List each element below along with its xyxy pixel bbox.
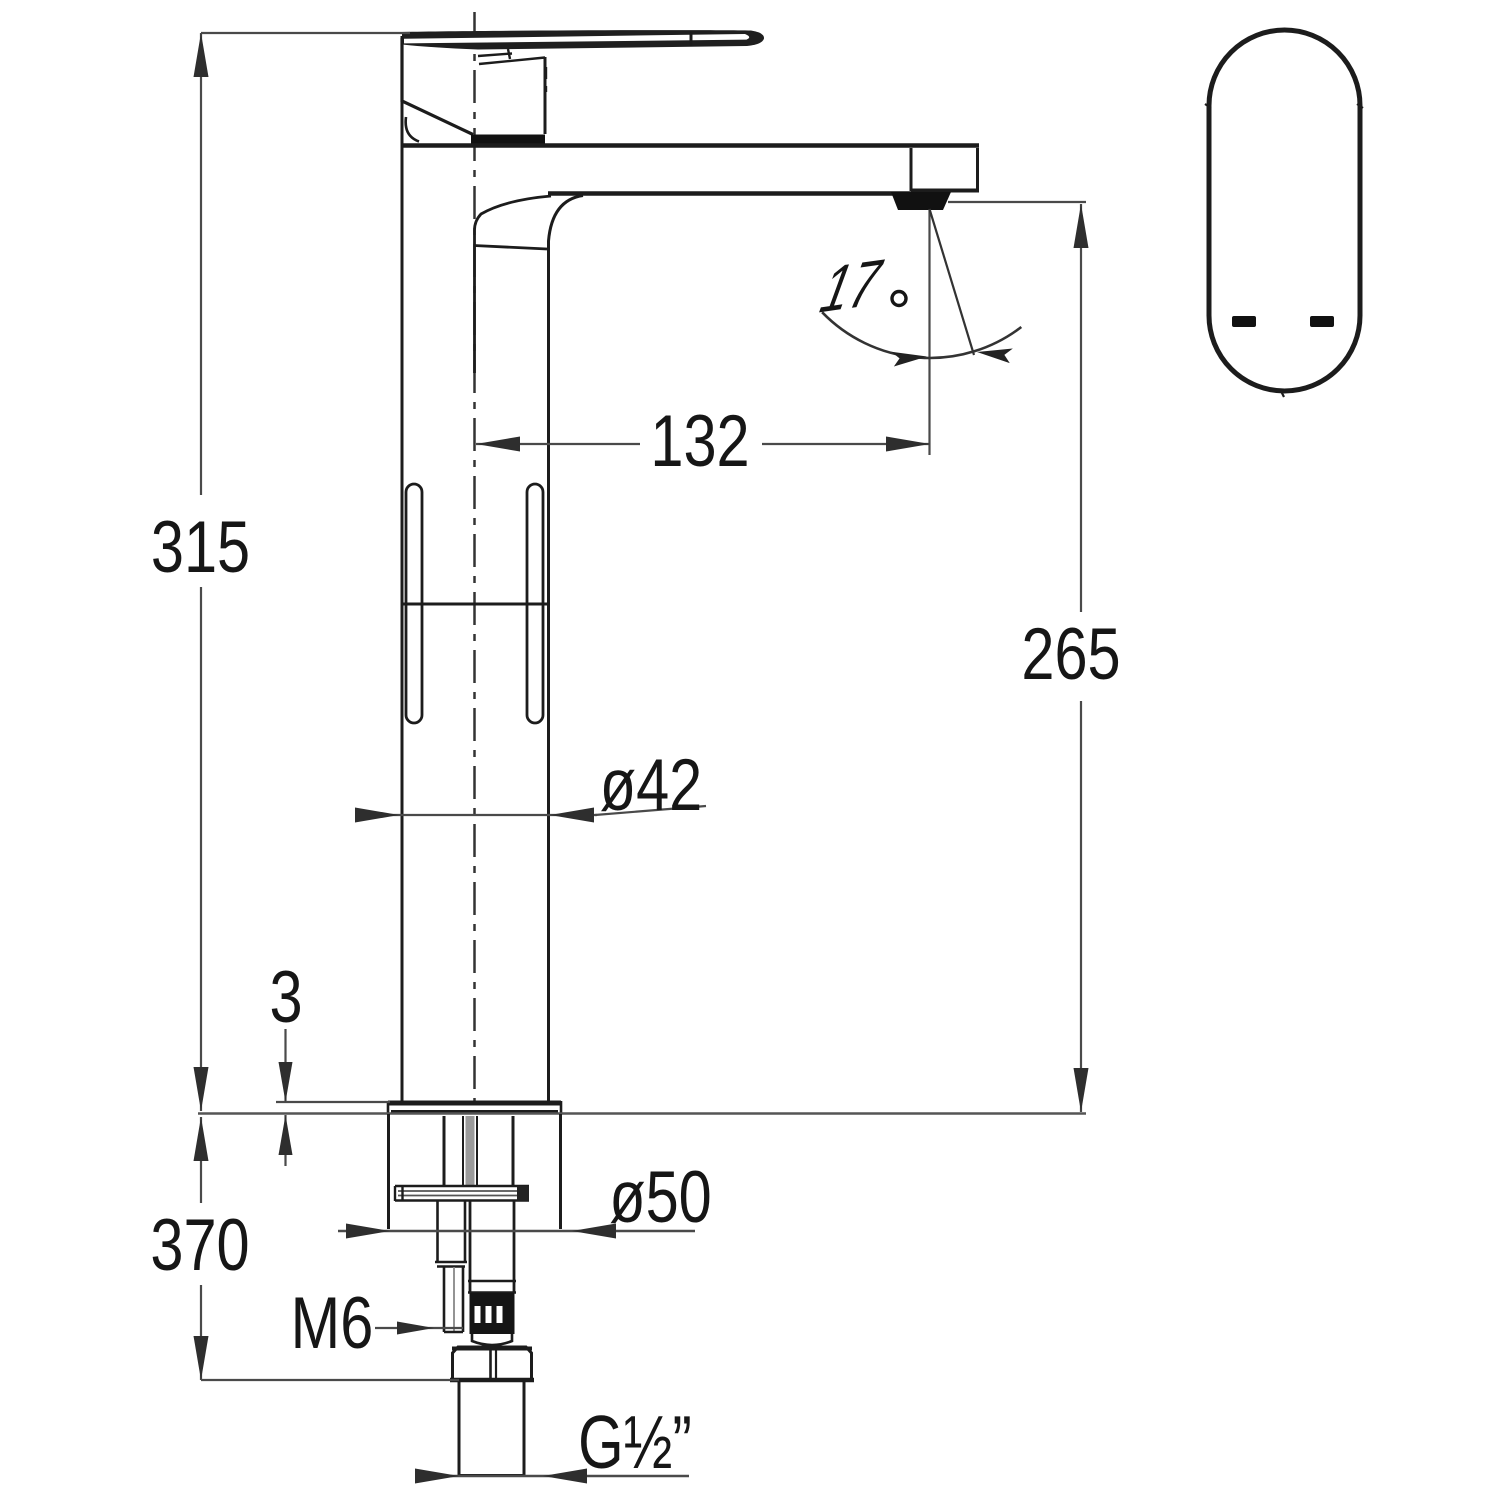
svg-text:315: 315 [151,507,250,588]
svg-text:M6: M6 [291,1283,374,1364]
body front-face upper curve [475,196,552,373]
escutcheon cover below deck [387,1114,390,1229]
dim 265: vertical dimension line [1080,204,1082,612]
supply pipe (G 1/2) [458,1382,461,1476]
horseshoe mounting washer [395,1185,529,1188]
top view: left aperture dash [1232,316,1256,327]
svg-text:3: 3 [269,957,302,1038]
dim o42: dimension line with outside arrows [355,814,597,816]
body/spout top edge (thick) [402,143,979,148]
dim G1/2: dimension line [418,1475,689,1477]
angle 17deg: arc arrowhead at slant line [976,344,1013,364]
dim 3: extension line at plate top [276,1101,390,1103]
hose connector (black) [470,1293,515,1334]
svg-text:G½”: G½” [578,1401,692,1485]
angle 17deg: arc [822,312,1021,358]
base plate on deck [388,1101,561,1106]
svg-text:370: 370 [150,1205,249,1286]
top view: right aperture dash [1310,316,1334,327]
cover front-left curve [406,117,419,142]
svg-text:265: 265 [1021,614,1120,695]
threaded stud (gray) inside shank [466,1116,475,1185]
handle base black band [471,135,545,144]
handle pivot detail lines [478,54,512,57]
body joint line [402,603,547,606]
aerator (black outlet at spout tip) [891,192,951,210]
dim 132: spout tip reference vertical [928,209,930,455]
M6 threaded stud lower part [443,1267,446,1332]
dim 3: arrows and stubs [284,1029,286,1102]
top view: parting ticks [1205,104,1211,108]
spout underside (thick) [548,191,911,196]
dim 370: vertical dimension line [200,1117,202,1203]
deck / counter line [198,1112,1086,1114]
shank tube under deck [443,1116,446,1185]
lever tip separation tick [690,32,693,47]
angle 17deg: flow slant line [930,209,975,355]
svg-text:132: 132 [650,401,749,482]
svg-text:ø50: ø50 [609,1157,712,1238]
dim 315: vertical dimension line [200,33,202,495]
svg-text:ø42: ø42 [600,745,703,826]
body left edge [401,36,404,1101]
connector collar (white, curved bottom) [472,1334,512,1345]
lever handle blade [402,30,764,49]
M6 stud upper sleeve below washer [436,1201,439,1261]
dim 265: top extension line [948,201,1086,203]
hex nut [453,1347,532,1380]
dim o42: leader underline [595,806,706,815]
angle 17deg: arc arrowhead at vertical line [891,348,927,367]
centerline (vertical dashed axis of faucet body) [473,12,476,1108]
handle cartridge cover [402,38,473,135]
top view: oval outline [1209,30,1360,391]
dim 370: bottom reference line [201,1379,459,1381]
spout end cap [910,148,913,191]
left grip slot [406,484,422,723]
lever blade highlight slit [404,34,749,43]
dim 132: dimension line [476,443,640,445]
supply tube collar joint [468,1280,516,1282]
dim 315: top extension line [201,32,410,34]
body right edge with under-spout fillet [549,196,584,1102]
dim o50: dimension line [338,1230,695,1232]
body front-face lower line [474,246,547,250]
supply tube below washer [469,1201,472,1293]
label M6 leader line [375,1327,463,1329]
angle 17deg: degree ring [892,292,906,306]
right grip slot [527,484,543,723]
